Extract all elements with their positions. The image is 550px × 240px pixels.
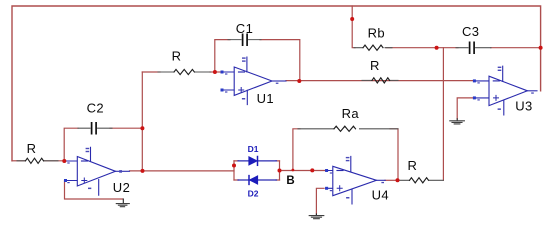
node: Ra tap junction bbox=[292, 169, 295, 172]
svg-text:U3: U3 bbox=[515, 98, 532, 113]
wire: C1 feedback loop left branch bbox=[215, 40, 230, 72]
diode D1 bbox=[238, 157, 277, 166]
svg-text:R: R bbox=[370, 58, 380, 73]
node: U1 inverting input junction bbox=[213, 70, 217, 74]
wire: diode loop left vertical bbox=[233, 161, 235, 180]
wire: diode bottom rail bbox=[234, 179, 280, 181]
ground (below U2) bbox=[116, 199, 129, 207]
resistor R (output, bottom right) bbox=[398, 178, 443, 183]
node: U4 output junction bbox=[396, 178, 400, 182]
svg-text:Ra: Ra bbox=[342, 106, 360, 121]
node: C2 to output column junction bbox=[140, 126, 144, 130]
node: C3 to right border junction bbox=[539, 46, 543, 50]
wire: node B row from diode limiter to U4 inverting input bbox=[280, 170, 328, 172]
node: junction on top tap column bbox=[350, 17, 354, 21]
svg-text:R: R bbox=[27, 141, 37, 156]
svg-text:R: R bbox=[172, 49, 182, 64]
resistor R (input, left) bbox=[17, 158, 58, 163]
resistor R (to U3, top right) bbox=[362, 78, 398, 83]
svg-text:C1: C1 bbox=[236, 21, 253, 36]
resistor R (to U1, top middle) bbox=[158, 69, 211, 74]
wire: U2 output row to diode limiter bbox=[130, 170, 235, 172]
svg-text:D2: D2 bbox=[248, 189, 259, 199]
capacitor C3 bbox=[456, 42, 491, 53]
svg-text:B: B bbox=[286, 175, 294, 187]
wire: U2 output column (feedback node, R2 top to output row) bbox=[141, 72, 143, 171]
wire: U4 output to R4 bbox=[385, 179, 398, 181]
wire: C1 feedback loop right branch down to U1 output bbox=[260, 40, 300, 81]
node: U1 output junction bbox=[297, 79, 301, 83]
wire: C2 left branch (node A up to C2) bbox=[64, 128, 78, 161]
op-amp U2 bbox=[63, 147, 130, 195]
node: U4 inverting input junction bbox=[310, 168, 314, 172]
wire: diode loop right vertical bbox=[279, 161, 281, 180]
svg-text:Rb: Rb bbox=[368, 25, 385, 40]
wire: Rb right lead to node with C3 bbox=[386, 47, 458, 49]
capacitor C2 bbox=[78, 123, 112, 134]
svg-text:C3: C3 bbox=[462, 24, 479, 39]
svg-text:U2: U2 bbox=[113, 180, 130, 195]
node: diode limiter left junction bbox=[232, 164, 236, 168]
diode D2 bbox=[238, 176, 277, 185]
wire: Ra loop left vertical bbox=[293, 129, 300, 171]
node A: U2 inverting input junction bbox=[62, 159, 66, 163]
svg-text:D1: D1 bbox=[248, 144, 259, 154]
wire: R2 right lead to U1 inverting node bbox=[210, 71, 221, 73]
wire: R2 left lead bbox=[142, 71, 160, 73]
capacitor C1 bbox=[228, 34, 261, 45]
node: Rb / C3 / feedback column junction bbox=[435, 46, 439, 50]
op-amp U3 bbox=[473, 66, 537, 115]
wire: U4 non-inverting input down to ground bbox=[316, 188, 324, 214]
wire: feedback column from Rb/C3 row down to R4 right lead bbox=[442, 48, 444, 181]
wire: C3 right lead to right border bbox=[491, 47, 541, 49]
svg-text:U4: U4 bbox=[372, 187, 389, 202]
svg-text:U1: U1 bbox=[257, 91, 274, 106]
svg-text:R: R bbox=[408, 158, 418, 173]
wire: U1 output row to R3 and U3 inverting input bbox=[286, 80, 473, 82]
wire: Ra loop right vertical to U4 output bbox=[390, 129, 398, 181]
wire: diode top rail bbox=[234, 160, 280, 162]
resistor Rb bbox=[354, 45, 392, 50]
wire: top border tap column down to Rb bbox=[352, 6, 355, 48]
wire: C2 right lead to U2 output column bbox=[110, 127, 142, 129]
wire: U2 non-inverting input down to ground bbox=[65, 181, 123, 200]
wire: R1 right lead to U2 inverting node bbox=[44, 160, 64, 162]
node: diode limiter right junction bbox=[278, 169, 282, 173]
wire: R1 left lead from border corner bbox=[12, 160, 25, 162]
node: U2 output row junction bbox=[141, 169, 145, 173]
op-amp U4 bbox=[325, 156, 385, 204]
op-amp U1 bbox=[221, 57, 287, 105]
svg-text:C2: C2 bbox=[87, 101, 104, 116]
resistor Ra bbox=[298, 126, 398, 131]
ground (below U4) bbox=[309, 214, 324, 219]
ground (below U3) bbox=[450, 119, 465, 124]
wire: outer feedback loop (left border, top border, right border) bbox=[12, 6, 541, 161]
wire: U3 non-inverting input down to ground bbox=[457, 98, 473, 119]
